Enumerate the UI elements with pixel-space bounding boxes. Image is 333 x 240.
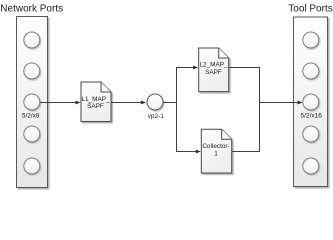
wire: vp2-1 to splitter [163,102,177,104]
network port circle 2 [24,63,40,79]
document L2_MAP_SAPF [199,48,229,92]
network port circle 3 (5/2/x8) [24,94,40,110]
arrowhead into tool port [298,101,303,105]
tool port circle 3 (5/2/x16) [303,94,319,110]
tool port circle 2 [303,63,319,79]
svg-text:Collector-: Collector- [202,143,229,150]
wire: merger to tool port [259,102,298,104]
wire: splitter to Collector-1 [176,151,196,153]
svg-text:SAPF: SAPF [205,69,222,76]
svg-text:1: 1 [214,151,218,158]
svg-text:vp2-1: vp2-1 [148,113,165,120]
arrowhead into L2_MAP_SAPF [193,66,198,70]
tool port circle 4 [303,126,319,142]
arrowhead into L1_MAP_SAPF [76,101,81,105]
svg-text:Network Ports: Network Ports [0,4,63,15]
svg-text:Tool Ports: Tool Ports [288,4,332,15]
network port circle 4 [24,126,40,142]
arrowhead into Collector-1 [196,150,201,154]
wire: merger vertical [259,67,261,152]
tool ports panel [294,17,328,187]
wire: splitter to L2_MAP_SAPF [176,67,194,69]
document L1_MAP_SAPF [81,82,111,122]
svg-text:5/2/x16: 5/2/x16 [301,112,323,119]
tool port circle 5 [303,158,319,174]
wire: L1_MAP_SAPF to vp2-1 [112,102,142,104]
network port circle 1 [24,32,40,48]
wire: L2_MAP_SAPF to merger [229,67,260,69]
document Collector-1 [201,129,231,173]
tool port circle 1 [303,32,319,48]
svg-text:L2_MAP_: L2_MAP_ [199,62,228,69]
node vp2-1 [147,94,164,120]
svg-text:SAPF: SAPF [87,103,104,110]
svg-text:L1_MAP_: L1_MAP_ [81,96,110,103]
network port circle 5 [24,158,40,174]
wire: splitter vertical [176,67,178,152]
wire: Collector-1 to merger [232,151,260,153]
wire: network port to L1_MAP_SAPF [40,102,76,104]
arrowhead into vp2-1 [141,101,146,105]
svg-text:5/2/x8: 5/2/x8 [22,112,40,119]
network ports panel [17,17,48,188]
